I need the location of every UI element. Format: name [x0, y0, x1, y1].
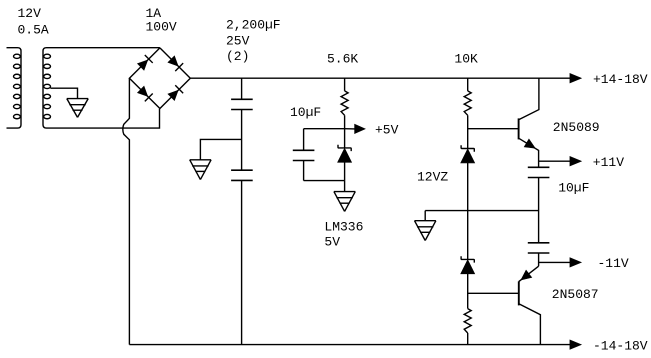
- svg-text:-11V: -11V: [598, 256, 629, 271]
- svg-text:10K: 10K: [454, 51, 478, 66]
- svg-text:2N5089: 2N5089: [553, 120, 600, 135]
- svg-text:+5V: +5V: [375, 122, 399, 137]
- svg-text:100V: 100V: [146, 20, 177, 35]
- svg-text:25V: 25V: [226, 33, 250, 48]
- svg-text:12VZ: 12VZ: [417, 170, 448, 185]
- svg-text:10µF: 10µF: [558, 180, 589, 195]
- svg-text:+11V: +11V: [593, 155, 624, 170]
- svg-text:5V: 5V: [324, 235, 340, 250]
- svg-text:-14-18V: -14-18V: [593, 338, 648, 353]
- svg-text:5.6K: 5.6K: [327, 51, 358, 66]
- svg-text:0.5A: 0.5A: [18, 23, 49, 38]
- svg-text:LM336: LM336: [324, 219, 363, 234]
- svg-text:1A: 1A: [146, 6, 162, 21]
- svg-text:+14-18V: +14-18V: [593, 72, 648, 87]
- svg-text:10µF: 10µF: [290, 105, 321, 120]
- svg-text:12V: 12V: [18, 6, 42, 21]
- svg-text:2N5087: 2N5087: [552, 287, 599, 302]
- svg-text:2,200µF: 2,200µF: [226, 17, 281, 32]
- svg-text:(2): (2): [226, 49, 249, 64]
